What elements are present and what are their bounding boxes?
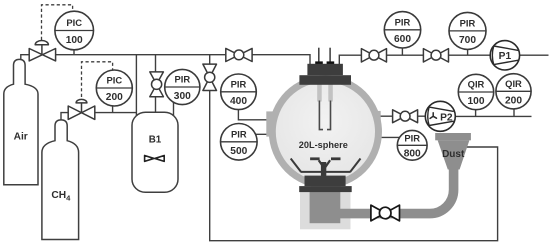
svg-text:700: 700 xyxy=(459,35,476,46)
svg-text:PIR: PIR xyxy=(404,133,420,144)
svg-text:PIR: PIR xyxy=(231,129,247,140)
svg-text:B1: B1 xyxy=(149,135,162,146)
svg-text:PIR: PIR xyxy=(231,79,247,90)
svg-text:300: 300 xyxy=(174,91,191,102)
svg-text:PIC: PIC xyxy=(106,75,122,86)
svg-text:PIR: PIR xyxy=(174,74,190,85)
svg-text:200: 200 xyxy=(106,92,123,103)
svg-text:600: 600 xyxy=(394,34,411,45)
svg-text:PIR: PIR xyxy=(395,17,411,28)
svg-text:400: 400 xyxy=(230,96,247,107)
svg-text:500: 500 xyxy=(230,146,247,157)
svg-text:PIR: PIR xyxy=(460,18,476,29)
svg-text:P1: P1 xyxy=(499,51,512,62)
svg-text:Dust: Dust xyxy=(442,149,465,160)
svg-text:20L-sphere: 20L-sphere xyxy=(299,140,348,150)
svg-text:Air: Air xyxy=(14,131,28,142)
svg-text:800: 800 xyxy=(404,149,421,160)
svg-text:100: 100 xyxy=(66,35,83,46)
svg-text:200: 200 xyxy=(505,96,522,107)
svg-text:P2: P2 xyxy=(440,112,453,123)
svg-text:QIR: QIR xyxy=(468,79,485,90)
svg-text:QIR: QIR xyxy=(505,78,522,89)
svg-text:100: 100 xyxy=(468,96,485,107)
svg-text:PIC: PIC xyxy=(66,17,82,28)
